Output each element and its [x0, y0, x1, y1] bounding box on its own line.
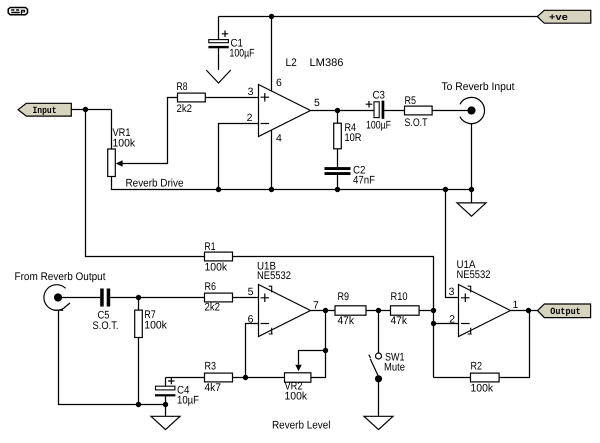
ground chevron below C1 — [206, 70, 231, 83]
node output junction — [526, 308, 531, 313]
wire VR1 wiper to R8 — [122, 98, 178, 164]
svg-text:R1: R1 — [205, 241, 216, 253]
node C2 bus junction — [335, 187, 340, 192]
node SW1 bottom terminal — [375, 375, 382, 382]
svg-text:47nF: 47nF — [353, 175, 375, 187]
svg-text:6: 6 — [276, 77, 282, 89]
resistor R7 body — [135, 310, 143, 337]
svg-text:3: 3 — [248, 86, 254, 98]
svg-text:R2: R2 — [471, 361, 483, 373]
resistor R3 body — [205, 373, 233, 382]
node pin2 junction — [431, 321, 436, 326]
svg-text:+ve: +ve — [549, 12, 568, 23]
svg-text:3: 3 — [449, 286, 455, 298]
svg-text:R3: R3 — [205, 361, 217, 373]
node C5 R7 junction — [136, 295, 141, 300]
svg-text:Mute: Mute — [384, 362, 405, 374]
U1B minus mark — [261, 323, 270, 325]
resistor R4 body — [334, 123, 342, 149]
svg-text:R8: R8 — [177, 81, 188, 93]
node jack bus junction — [469, 187, 474, 192]
switch SW1 lever — [370, 359, 378, 376]
svg-text:47k: 47k — [391, 315, 408, 327]
connector jack From Reverb Output — [44, 285, 66, 311]
C4 polarity plus — [168, 378, 175, 385]
L2 minus mark — [261, 123, 270, 125]
wire out to VR2 tap — [325, 311, 327, 351]
capacitor C3 plates — [374, 102, 379, 118]
op-amp U1A triangle — [459, 285, 511, 337]
wire pin4 to bus — [271, 130, 273, 189]
wire tap to wiper — [299, 351, 326, 365]
ESP logo — [8, 8, 27, 16]
capacitor C5 plates — [100, 289, 104, 307]
svg-text:2k2: 2k2 — [205, 301, 221, 313]
svg-text:From Reverb Output: From Reverb Output — [15, 271, 106, 283]
node R7 gnd junction — [136, 402, 141, 407]
wire SW1 to ground — [378, 379, 380, 417]
wire R5 to jack — [432, 110, 468, 112]
capacitor C4 plates — [156, 386, 175, 390]
wire summing to U1A pin2 — [434, 323, 459, 325]
resistor R8 body — [178, 93, 206, 102]
wire R3 to VR2 — [233, 377, 285, 379]
wire VR1 bottom lead — [112, 177, 472, 190]
node R10 summing junction — [431, 308, 436, 313]
svg-text:47k: 47k — [338, 315, 355, 327]
output flag — [538, 304, 591, 318]
svg-text:5: 5 — [248, 286, 254, 298]
input flag — [18, 103, 71, 116]
node rail junction pin6 tap — [269, 14, 274, 19]
U1A plus mark — [461, 294, 470, 303]
ground triangle below C4 — [151, 416, 180, 429]
U1A power stub top — [468, 286, 471, 292]
node pin2 bus junction — [216, 187, 221, 192]
svg-text:100µF: 100µF — [366, 120, 391, 132]
svg-text:R9: R9 — [338, 291, 350, 303]
L2 plus mark — [261, 93, 270, 102]
svg-text:100k: 100k — [144, 319, 167, 331]
svg-text:C3: C3 — [373, 90, 386, 102]
svg-text:100k: 100k — [285, 390, 308, 402]
svg-text:100k: 100k — [205, 262, 228, 274]
wire U1B out — [311, 310, 434, 312]
ground triangle below SW1 — [364, 416, 393, 429]
svg-text:R6: R6 — [205, 281, 217, 293]
node VR2 tap junction — [323, 348, 328, 353]
wire C4 top lead — [165, 378, 167, 387]
wire C4 bottom lead — [165, 396, 167, 404]
wire C1 bottom lead — [218, 48, 220, 70]
wire C3 to R5 — [384, 110, 404, 112]
svg-text:To Reverb Input: To Reverb Input — [442, 81, 515, 93]
wire jack to C5 — [62, 297, 100, 299]
wire pin6 to R3 node — [246, 324, 259, 378]
svg-text:Output: Output — [550, 306, 581, 317]
node input junction — [83, 107, 88, 112]
wire +ve rail — [219, 16, 538, 18]
wire R1 to summing node — [233, 257, 434, 378]
svg-text:100k: 100k — [471, 383, 494, 395]
potentiometer VR2 body — [285, 373, 311, 382]
U1B power stub top — [269, 286, 272, 292]
resistor R9 body — [335, 306, 366, 315]
wire R8 to pin3 — [205, 97, 258, 99]
wire pin5 to C3 — [311, 110, 375, 112]
svg-text:S.O.T: S.O.T — [405, 117, 428, 129]
wire pin2 to bus — [219, 124, 259, 190]
ground triangle right — [457, 203, 486, 216]
wire bus to ground stub — [471, 190, 473, 203]
wire input flag to VR1 — [71, 109, 111, 111]
resistor R1 body — [205, 252, 233, 261]
resistor R10 body — [391, 306, 420, 315]
resistor R6 body — [205, 293, 233, 302]
wire jack ground lead — [471, 123, 473, 189]
svg-text:LM386: LM386 — [310, 57, 344, 69]
svg-text:R10: R10 — [391, 291, 408, 303]
svg-text:2: 2 — [247, 112, 253, 124]
capacitor C1 plates — [209, 40, 229, 43]
VR2 wiper arrow — [295, 365, 301, 372]
node pin5 R4 junction — [335, 108, 340, 113]
wire R2 to output — [499, 311, 529, 378]
svg-text:4: 4 — [276, 133, 282, 145]
wire R4 top lead — [337, 111, 339, 124]
jack ground tee — [54, 309, 63, 311]
VR1 wiper arrow — [116, 160, 123, 166]
wire VR1 top lead — [111, 110, 113, 150]
svg-text:100k: 100k — [113, 138, 136, 150]
wire C5 to R6 — [110, 297, 204, 299]
svg-text:5: 5 — [314, 97, 320, 109]
switch SW1 contact circle — [376, 353, 382, 359]
node pin4 bus junction — [269, 187, 274, 192]
svg-text:NE5532: NE5532 — [257, 270, 291, 282]
wire C1 top lead — [218, 17, 220, 40]
connector jack To Reverb Input — [460, 97, 485, 123]
svg-text:100µF: 100µF — [230, 48, 255, 60]
svg-text:NE5532: NE5532 — [457, 269, 491, 281]
svg-text:R5: R5 — [405, 95, 417, 107]
wire R6 to pin5 — [233, 297, 259, 299]
svg-text:Reverb Level: Reverb Level — [272, 419, 331, 431]
svg-text:1: 1 — [513, 299, 519, 311]
wire VR2 right to tap — [311, 351, 326, 378]
node R3 VR2 junction — [243, 375, 248, 380]
wire bus to U1A pin3 — [446, 190, 459, 298]
U1A minus mark — [461, 323, 470, 325]
svg-text:7: 7 — [313, 299, 319, 311]
svg-text:2k2: 2k2 — [177, 103, 193, 115]
wire pin6 from rail — [271, 17, 273, 92]
C1 polarity plus — [222, 31, 229, 38]
op-amp L2 LM386 triangle — [259, 85, 311, 137]
svg-text:10µF: 10µF — [177, 395, 199, 407]
node R9 R10 junction — [376, 308, 381, 313]
svg-text:2: 2 — [449, 313, 455, 325]
potentiometer VR1 body — [108, 149, 116, 177]
svg-text:Input: Input — [33, 105, 57, 116]
wire input down to R1 row — [86, 110, 205, 257]
wire U1A out to flag — [511, 310, 538, 312]
svg-text:Reverb Drive: Reverb Drive — [126, 177, 184, 189]
resistor R2 body — [471, 373, 500, 382]
svg-text:L2: L2 — [286, 57, 297, 69]
U1B plus mark — [261, 294, 270, 303]
wire jack ground down — [59, 310, 166, 404]
switch SW1 lever tick — [369, 355, 371, 358]
capacitor C2 plates — [325, 167, 351, 170]
resistor R5 body — [405, 106, 433, 115]
wire C2 to bus — [337, 175, 339, 190]
wire C4 gnd stub — [165, 405, 167, 417]
U1B power stub bottom — [269, 328, 273, 334]
wire C4 to R3 — [166, 377, 205, 379]
U1A power stub bottom — [468, 328, 472, 334]
wire R7 bottom lead — [138, 338, 140, 405]
node U1A-feed bus junction — [443, 187, 448, 192]
wire summing to R2 — [434, 377, 471, 379]
power flag +ve — [537, 10, 591, 23]
svg-text:10R: 10R — [345, 132, 362, 144]
node U1B out junction — [323, 308, 328, 313]
wire R4 to C2 — [337, 149, 339, 167]
wire SW1 top lead — [378, 311, 380, 354]
C3 polarity plus — [366, 101, 373, 108]
op-amp U1B triangle — [259, 285, 311, 337]
svg-text:4k7: 4k7 — [205, 382, 222, 394]
svg-text:S.O.T.: S.O.T. — [93, 320, 119, 332]
wire R7 top lead — [138, 298, 140, 311]
node C4 gnd junction — [163, 402, 168, 407]
